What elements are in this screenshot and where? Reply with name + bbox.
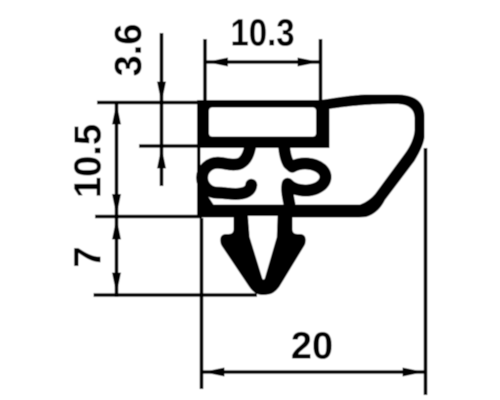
- svg-text:10.3: 10.3: [230, 11, 294, 54]
- svg-text:20: 20: [291, 326, 333, 368]
- svg-text:7: 7: [68, 246, 110, 267]
- svg-text:3.6: 3.6: [108, 24, 150, 77]
- svg-text:10.5: 10.5: [68, 124, 110, 198]
